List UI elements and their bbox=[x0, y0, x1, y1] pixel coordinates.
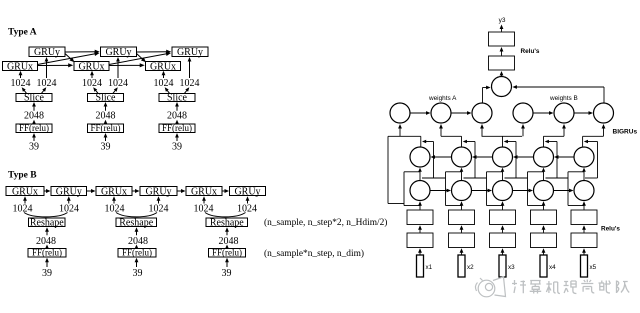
input bar x2 bbox=[458, 255, 465, 277]
svg-text:GRUy: GRUy bbox=[177, 47, 203, 58]
svg-text:FF(relu): FF(relu) bbox=[32, 248, 62, 258]
wire elbow top col2 bbox=[446, 171, 462, 173]
svg-text:GRUy: GRUy bbox=[56, 186, 82, 197]
arrow 2048 to Slice A3 bbox=[176, 105, 178, 111]
wire elbow top col4 bbox=[528, 171, 544, 173]
wire riser segment S5 bbox=[583, 135, 604, 137]
input bar x3 bbox=[499, 255, 506, 277]
arrow into B1 bottom bbox=[419, 170, 421, 172]
svg-text:1024: 1024 bbox=[149, 203, 169, 214]
arrow B2 to B3 bbox=[87, 190, 93, 192]
wire riser drop col3 bbox=[502, 136, 504, 147]
arrow 1024 to GRUy A2 bbox=[117, 60, 119, 78]
arrow 1024 to box B6 bbox=[247, 199, 249, 204]
box relu lower col5 bbox=[571, 233, 597, 248]
arrow GRUx A2 to GRUy A3 bbox=[109, 54, 168, 65]
arrow 39 to FF B2 bbox=[136, 261, 138, 268]
svg-text:GRUx: GRUx bbox=[101, 186, 127, 197]
svg-text:x1: x1 bbox=[426, 264, 433, 271]
svg-text:GRUx: GRUx bbox=[150, 62, 176, 73]
box FF(relu) B3 bbox=[209, 249, 246, 258]
arrow 2048 to Reshape B2 bbox=[136, 230, 138, 235]
arrow C2 to C3 bbox=[451, 112, 469, 114]
svg-text:39: 39 bbox=[42, 268, 52, 279]
box relu upper col5 bbox=[571, 210, 597, 225]
arrow input to box col4 bbox=[543, 251, 545, 255]
box relu upper col2 bbox=[449, 210, 475, 225]
box FF(relu) B2 bbox=[118, 249, 156, 258]
svg-text:Slice: Slice bbox=[167, 93, 188, 104]
node F2 forward GRU bbox=[452, 181, 472, 201]
svg-text:39: 39 bbox=[172, 141, 182, 152]
wire riser drop col4 bbox=[543, 136, 545, 147]
arrow skip into riser col2 bbox=[465, 141, 475, 143]
arrow lower to upper box col2 bbox=[461, 228, 463, 233]
arrow 2048 to Reshape B3 bbox=[226, 230, 228, 235]
wire skip vertical col4 bbox=[556, 142, 558, 179]
arrow box to F4 bbox=[543, 204, 545, 210]
node B2 backward GRU bbox=[452, 147, 472, 167]
arrow 1024 to GRUy A1 bbox=[46, 60, 48, 78]
wire F2 to B2 bbox=[461, 172, 463, 180]
arrow 1024 to GRUx A2 bbox=[91, 74, 93, 79]
svg-text:39: 39 bbox=[29, 141, 39, 152]
arrow F4 to F5 forward bbox=[554, 190, 571, 192]
wire riser segment S2 bbox=[441, 135, 462, 137]
wire elbow top col3 bbox=[487, 171, 503, 173]
wire elbow bottom col1 bbox=[404, 205, 420, 207]
node C1 row1 circle bbox=[390, 103, 410, 123]
svg-text:1024: 1024 bbox=[108, 78, 128, 89]
arrow Slice to 1024 right A2 bbox=[113, 89, 116, 93]
wire F1 to B1 bbox=[419, 172, 421, 180]
wire F5 to B5 bbox=[583, 172, 585, 180]
node F4 forward GRU bbox=[534, 181, 554, 201]
svg-text:2048: 2048 bbox=[36, 236, 56, 247]
input bar x4 bbox=[540, 255, 547, 277]
svg-text:(n_sample*n_step, n_dim): (n_sample*n_step, n_dim) bbox=[264, 248, 364, 259]
box FF(relu) A3 bbox=[159, 124, 195, 133]
svg-text:1024: 1024 bbox=[154, 78, 174, 89]
arrow into B2 bottom bbox=[461, 170, 463, 172]
arrow C1 to C2 bbox=[410, 112, 428, 114]
svg-text:1024: 1024 bbox=[11, 78, 31, 89]
box relu lower col2 bbox=[449, 233, 475, 248]
arrow 1024 to GRUx A1 bbox=[20, 74, 22, 79]
wire elbow vertical col1 bbox=[403, 172, 405, 206]
svg-text:FF(relu): FF(relu) bbox=[19, 123, 49, 133]
curve 1024 pair to Reshape B3 bbox=[205, 213, 246, 217]
arrow 39 to FF B1 bbox=[46, 261, 48, 268]
arrow riser into C3 bbox=[481, 127, 483, 137]
box relu top bbox=[489, 32, 515, 46]
arrow C5 to C6 bbox=[574, 112, 590, 114]
svg-text:y3: y3 bbox=[499, 17, 506, 24]
svg-text:39: 39 bbox=[133, 268, 143, 279]
arrow Slice to 1024 left A3 bbox=[166, 89, 169, 93]
wire skip vertical col2 bbox=[474, 142, 476, 179]
wire riser drop col2 bbox=[461, 136, 463, 147]
svg-text:2048: 2048 bbox=[219, 236, 239, 247]
arrow 1024 to box B2 bbox=[68, 199, 70, 204]
arrow skip into riser col5 bbox=[586, 141, 597, 143]
arrow FF to 2048 B1 bbox=[46, 247, 48, 248]
wire elbow bottom col5 bbox=[568, 205, 584, 207]
arrow B2 to B1 backward bbox=[433, 156, 451, 158]
arrow FF to 2048 A1 bbox=[33, 122, 35, 124]
svg-text:1024: 1024 bbox=[37, 78, 57, 89]
box GRUx A2 bbox=[74, 62, 109, 71]
node concat top circle bbox=[492, 77, 512, 97]
arrow B5 to B6 bbox=[222, 190, 226, 192]
wire F4 to B4 bbox=[543, 172, 545, 180]
node C4 row1 circle bbox=[513, 103, 533, 123]
box FF(relu) B1 bbox=[28, 249, 66, 258]
arrow GRUy A2 to GRUy A3 bbox=[137, 51, 169, 53]
svg-text:Slice: Slice bbox=[96, 93, 117, 104]
wire riser segment S4 bbox=[544, 135, 565, 137]
arrow Slice to 1024 left A2 bbox=[95, 89, 98, 93]
wire weights B feed bbox=[603, 87, 605, 103]
node C5 row1 circle bbox=[554, 103, 574, 123]
arrow FF to 2048 B3 bbox=[226, 247, 228, 248]
arrow input to box col3 bbox=[502, 251, 504, 255]
arrow riser into C5 bbox=[563, 127, 565, 137]
svg-text:Type B: Type B bbox=[8, 171, 37, 181]
arrow box to F5 bbox=[583, 204, 585, 210]
arrow 39 to FF A3 bbox=[176, 136, 178, 141]
arrow 1024 to box B1 bbox=[24, 199, 26, 204]
arrow Slice to 1024 right A1 bbox=[42, 89, 45, 93]
arrow GRUy A1 to GRUx A2 bbox=[65, 54, 72, 61]
wire skip bottom col2 bbox=[464, 177, 487, 179]
wire riser drop col5 bbox=[582, 136, 584, 147]
wire elbow vertical col2 bbox=[445, 172, 447, 206]
svg-text:FF(relu): FF(relu) bbox=[122, 248, 152, 258]
arrow GRUy A1 to GRUy A2 bbox=[65, 51, 97, 53]
box GRUx A3 bbox=[146, 62, 181, 71]
svg-text:weights B: weights B bbox=[549, 95, 578, 102]
box relu upper col1 bbox=[407, 210, 433, 225]
arrow into B4 bottom bbox=[543, 170, 545, 172]
box Slice A3 bbox=[159, 94, 195, 102]
input bar x5 bbox=[581, 255, 588, 277]
arrow 2048 to Reshape B1 bbox=[46, 230, 48, 235]
wire left loop C1 bbox=[387, 136, 389, 203]
arrow into B5 bottom bbox=[583, 170, 585, 172]
wire elbow bottom col2 bbox=[446, 205, 462, 207]
arrow input to box col5 bbox=[583, 251, 585, 255]
node B3 backward GRU bbox=[493, 147, 513, 167]
svg-text:GRUy: GRUy bbox=[34, 47, 60, 58]
wire riser segment S1 bbox=[388, 135, 421, 137]
node F1 forward GRU bbox=[410, 181, 430, 201]
box Reshape B2 bbox=[116, 218, 157, 227]
wire elbow vertical col3 bbox=[486, 172, 488, 206]
box Slice A2 bbox=[88, 94, 124, 102]
svg-text:39: 39 bbox=[222, 268, 232, 279]
wire elbow top col5 bbox=[568, 171, 584, 173]
svg-text:Relu's: Relu's bbox=[521, 48, 540, 55]
wire skip bottom col1 bbox=[422, 177, 446, 179]
svg-text:2048: 2048 bbox=[128, 236, 148, 247]
arrow B3 to B2 backward bbox=[475, 156, 493, 158]
svg-text:GRUy: GRUy bbox=[234, 186, 260, 197]
watermark megaphone icon bbox=[475, 277, 505, 297]
svg-text:Reshape: Reshape bbox=[210, 218, 244, 229]
svg-text:1024: 1024 bbox=[194, 203, 214, 214]
arrow skip into riser col4 bbox=[547, 141, 557, 143]
svg-text:GRUy: GRUy bbox=[105, 47, 131, 58]
arrow lower to upper box col3 bbox=[502, 228, 504, 233]
arrow lower to upper box col1 bbox=[419, 228, 421, 233]
node C6 row1 circle bbox=[594, 103, 614, 123]
box relu lower col1 bbox=[407, 233, 433, 248]
arrow riser into C4 bbox=[522, 127, 524, 137]
wire riser segment S3 bbox=[482, 135, 522, 137]
arrow F1 to F2 forward bbox=[430, 190, 448, 192]
arrow B5 to B4 backward bbox=[557, 156, 574, 158]
svg-text:x3: x3 bbox=[508, 264, 515, 271]
wire skip vertical col1 bbox=[433, 142, 435, 179]
box GRUy B2 bbox=[51, 187, 87, 196]
wire riser drop col1 bbox=[420, 136, 422, 147]
curve 1024 pair to Reshape B1 bbox=[24, 213, 68, 217]
svg-text:x5: x5 bbox=[590, 264, 597, 271]
node F3 forward GRU bbox=[493, 181, 513, 201]
svg-text:GRUx: GRUx bbox=[191, 186, 217, 197]
box GRUx A1 bbox=[3, 62, 38, 71]
box Slice A1 bbox=[16, 94, 52, 102]
svg-text:1024: 1024 bbox=[13, 203, 33, 214]
box relu upper col3 bbox=[490, 210, 516, 225]
arrow 1024 to box B3 bbox=[113, 199, 115, 204]
arrow concat to box2 bbox=[501, 74, 503, 76]
node B4 backward GRU bbox=[534, 147, 554, 167]
svg-text:x2: x2 bbox=[467, 264, 474, 271]
arrow C4 to C5 bbox=[533, 112, 551, 114]
svg-text:FF(relu): FF(relu) bbox=[91, 123, 121, 133]
svg-text:Type A: Type A bbox=[8, 28, 37, 38]
box Reshape B3 bbox=[206, 218, 248, 227]
arrow input to box col1 bbox=[419, 251, 421, 255]
arrow Slice to 1024 left A1 bbox=[23, 89, 26, 93]
arrow FF to 2048 B2 bbox=[136, 247, 138, 248]
box Reshape B1 bbox=[29, 218, 66, 227]
svg-text:FF(relu): FF(relu) bbox=[212, 248, 242, 258]
node C3 row1 circle bbox=[472, 103, 492, 123]
wire skip bottom col5 bbox=[585, 177, 598, 179]
box GRUy A3 bbox=[172, 47, 208, 57]
arrow B3 to B4 bbox=[132, 190, 137, 192]
svg-text:Reshape: Reshape bbox=[30, 218, 64, 229]
svg-text:BIGRUs: BIGRUs bbox=[613, 129, 638, 136]
arrow lower to upper box col5 bbox=[583, 228, 585, 233]
arrow riser into C2 bbox=[440, 127, 442, 137]
box relu upper col4 bbox=[531, 210, 557, 225]
arrow box1 to y3 bbox=[501, 27, 503, 31]
svg-text:weights A: weights A bbox=[428, 95, 457, 102]
arrow lower to upper box col4 bbox=[543, 228, 545, 233]
arrow GRUx A1 to GRUx A2 bbox=[38, 64, 71, 66]
arrow GRUx A2 to GRUx A3 bbox=[109, 64, 142, 66]
arrow 2048 to Slice A2 bbox=[105, 105, 107, 111]
svg-text:1024: 1024 bbox=[82, 78, 102, 89]
box GRUx B5 bbox=[186, 187, 222, 196]
arrow B1 to B2 bbox=[44, 190, 48, 192]
svg-text:1024: 1024 bbox=[180, 78, 200, 89]
node F5 forward GRU bbox=[574, 181, 594, 201]
wire skip bottom col3 bbox=[505, 177, 528, 179]
node C2 row1 circle bbox=[431, 103, 451, 123]
svg-text:1024: 1024 bbox=[105, 203, 125, 214]
watermark text bbox=[512, 280, 629, 294]
svg-text:GRUy: GRUy bbox=[145, 186, 171, 197]
arrow B4 to B3 backward bbox=[516, 156, 534, 158]
svg-text:1024: 1024 bbox=[59, 203, 79, 214]
box GRUy A2 bbox=[101, 47, 137, 57]
arrow 1024 to box B4 bbox=[158, 199, 160, 204]
svg-text:Slice: Slice bbox=[24, 93, 45, 104]
wire F3 to B3 bbox=[502, 172, 504, 180]
wire elbow bottom col4 bbox=[528, 205, 544, 207]
arrow box2 to box1 bbox=[501, 50, 503, 56]
svg-text:Relu's: Relu's bbox=[601, 225, 620, 232]
box GRUy B4 bbox=[140, 187, 177, 196]
wire elbow top col1 bbox=[404, 171, 420, 173]
svg-text:Reshape: Reshape bbox=[119, 218, 153, 229]
arrow Slice to 1024 right A3 bbox=[185, 89, 188, 93]
wire skip bottom col4 bbox=[546, 177, 569, 179]
wire elbow vertical col4 bbox=[527, 172, 529, 206]
box FF(relu) A2 bbox=[88, 124, 124, 133]
arrow skip into riser col3 bbox=[506, 141, 516, 143]
box GRUy B6 bbox=[230, 187, 266, 196]
arrow FF to 2048 A2 bbox=[105, 122, 107, 124]
arrow B4 to B5 bbox=[177, 190, 183, 192]
arrow riser into C1 bbox=[399, 127, 401, 137]
arrow riser into C6 bbox=[603, 127, 605, 137]
arrow skip into riser col1 bbox=[425, 141, 434, 143]
arrow input to box col2 bbox=[461, 251, 463, 255]
arrow 39 to FF B3 bbox=[226, 261, 228, 268]
box GRUx B3 bbox=[96, 187, 132, 196]
wire weights A feed bbox=[482, 88, 484, 104]
box GRUx B1 bbox=[6, 187, 44, 196]
arrow 1024 to GRUx A3 bbox=[163, 74, 165, 79]
arrow FF to 2048 A3 bbox=[176, 122, 178, 124]
arrow F3 to F4 forward bbox=[513, 190, 531, 192]
box relu lower col3 bbox=[490, 233, 516, 248]
arrow 1024 to GRUy A3 bbox=[189, 60, 191, 78]
wire skip vertical col5 bbox=[597, 142, 599, 179]
node B5 backward GRU bbox=[574, 147, 594, 167]
arrow box to F1 bbox=[419, 204, 421, 210]
svg-text:FF(relu): FF(relu) bbox=[162, 123, 192, 133]
svg-text:GRUx: GRUx bbox=[7, 62, 33, 73]
wire elbow vertical col5 bbox=[567, 172, 569, 206]
svg-text:39: 39 bbox=[101, 141, 111, 152]
box relu lower col4 bbox=[531, 233, 557, 248]
input bar x1 bbox=[417, 255, 424, 277]
svg-text:GRUx: GRUx bbox=[78, 62, 104, 73]
arrow box to F3 bbox=[502, 204, 504, 210]
arrow GRUy A2 to GRUx A3 bbox=[137, 54, 144, 61]
wire skip vertical col3 bbox=[515, 142, 517, 179]
arrow GRUx A1 to GRUy A2 bbox=[38, 54, 97, 65]
arrow box to F2 bbox=[461, 204, 463, 210]
arrow 2048 to Slice A1 bbox=[33, 105, 35, 111]
arrow F2 to F3 forward bbox=[472, 190, 490, 192]
curve 1024 pair to Reshape B2 bbox=[116, 213, 157, 217]
svg-text:x4: x4 bbox=[549, 264, 556, 271]
svg-text:GRUx: GRUx bbox=[12, 186, 38, 197]
arrow into B3 bottom bbox=[502, 170, 504, 172]
arrow 1024 to box B5 bbox=[203, 199, 205, 204]
box relu second bbox=[489, 56, 515, 70]
node B1 backward GRU bbox=[410, 147, 430, 167]
box GRUy A1 bbox=[29, 47, 65, 57]
wire elbow bottom col3 bbox=[487, 205, 503, 207]
svg-text:(n_sample, n_step*2, n_Hdim/2): (n_sample, n_step*2, n_Hdim/2) bbox=[264, 217, 387, 228]
svg-text:1024: 1024 bbox=[237, 203, 257, 214]
box FF(relu) A1 bbox=[16, 124, 52, 133]
arrow 39 to FF A2 bbox=[105, 136, 107, 141]
arrow 39 to FF A1 bbox=[33, 136, 35, 141]
